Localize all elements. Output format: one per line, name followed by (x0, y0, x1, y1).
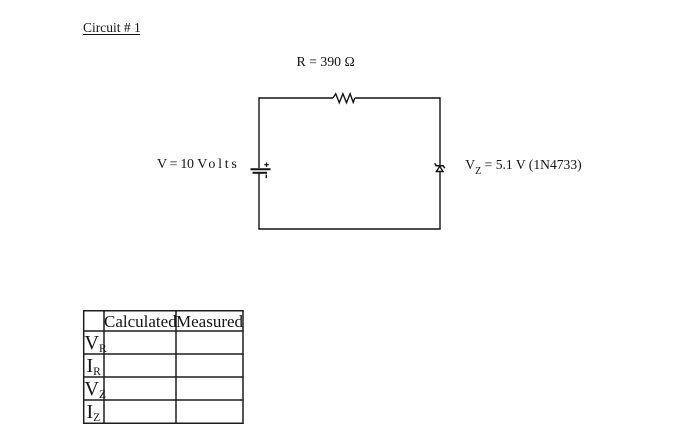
table row label VR (85, 333, 107, 353)
battery positive plate (long) (251, 168, 271, 170)
value label R = 390 ohms (297, 55, 355, 69)
table row label IR (87, 356, 101, 376)
battery negative plate (short) (253, 172, 268, 174)
table row label IZ (87, 402, 101, 422)
table outer border + row lines (83, 310, 244, 312)
title underline (83, 34, 140, 35)
wire right lower (zener to bottom corner) (439, 172, 441, 230)
wire bottom segment (258, 228, 440, 230)
table header "Calculated" (104, 313, 176, 330)
zener cathode bar with bent tails (435, 163, 445, 168)
wire left upper (top corner to battery) (258, 97, 260, 168)
battery plus sign (264, 162, 269, 167)
wire right upper (top corner to zener) (439, 97, 441, 166)
table column lines (83, 310, 85, 424)
wire top-left segment (259, 97, 333, 99)
wire left lower (battery to bottom corner) (258, 173, 260, 229)
battery minus tick (265, 175, 267, 179)
value label V = 10 Volts (157, 158, 194, 172)
resistor R zigzag (333, 94, 355, 103)
table header "Measured" (176, 313, 243, 330)
measurement table grid (83, 310, 244, 424)
value label Vz = 5.1 V (1N4733) (465, 158, 581, 172)
zener anode triangle (hollow, pointing up) (436, 166, 443, 171)
title "Circuit # 1" (83, 21, 141, 35)
zener diode D1 (1N4733) (435, 163, 445, 171)
table row label VZ (85, 379, 106, 399)
wire top-right segment (355, 97, 440, 99)
battery V1 (voltage source) (251, 162, 271, 178)
